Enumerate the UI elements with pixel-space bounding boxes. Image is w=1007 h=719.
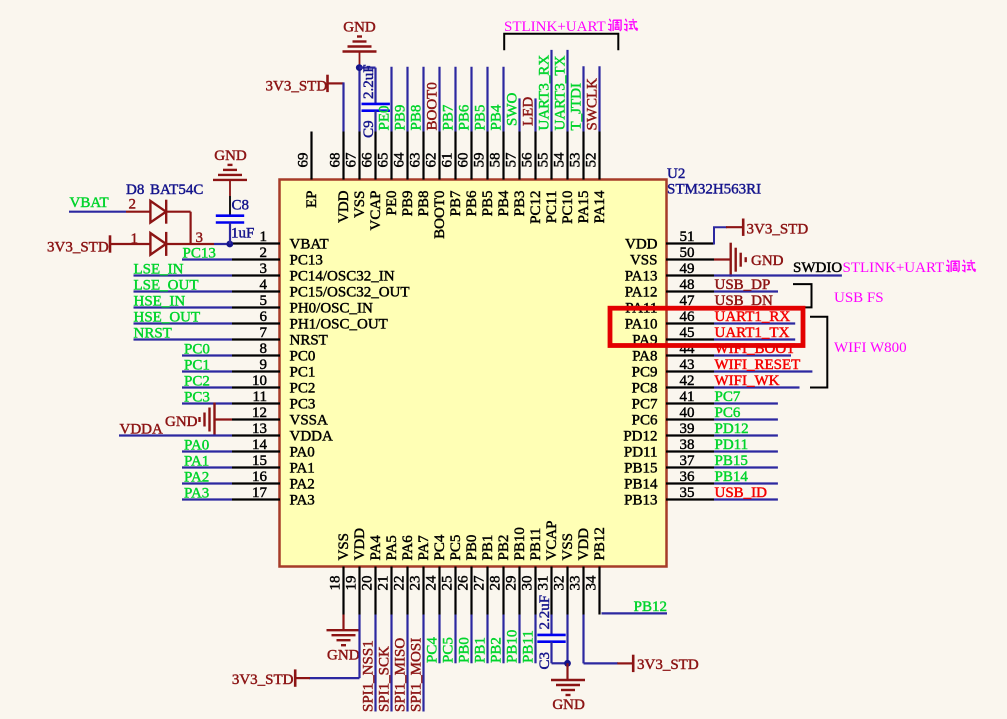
pin 66 stub (374, 132, 376, 180)
pin 30 stub (534, 567, 536, 615)
svg-text:2: 2 (129, 197, 137, 213)
svg-text:69: 69 (296, 153, 312, 168)
pin 55 stub (550, 132, 552, 180)
svg-text:PD11: PD11 (624, 445, 658, 461)
wire WIFI_BOOT (714, 354, 791, 356)
wire PB10 (518, 615, 520, 664)
svg-text:BOOT0: BOOT0 (425, 82, 441, 130)
wire C9 bottom / VCAP (374, 111, 376, 132)
wire C3 to junction (552, 662, 568, 664)
wire PB11 (534, 615, 536, 664)
svg-text:16: 16 (252, 469, 268, 485)
wire C9 top (374, 68, 376, 104)
svg-text:29: 29 (504, 576, 520, 591)
svg-text:45: 45 (680, 325, 695, 341)
wire SWDIO (714, 274, 842, 276)
svg-text:PC3: PC3 (290, 397, 316, 413)
svg-text:VDD: VDD (625, 237, 658, 253)
wire WIFI_WK (714, 386, 800, 388)
svg-text:PC13: PC13 (183, 246, 216, 262)
svg-text:PC4: PC4 (425, 637, 441, 663)
svg-text:62: 62 (424, 153, 440, 168)
svg-text:1uF: 1uF (231, 226, 254, 242)
svg-text:PA4: PA4 (368, 535, 384, 561)
wire LSE_IN (134, 274, 233, 276)
svg-text:VSS: VSS (630, 253, 658, 269)
svg-text:PB5: PB5 (473, 105, 489, 131)
svg-text:PB7: PB7 (448, 190, 464, 216)
wire PC0 (182, 354, 232, 356)
pin 21 stub (390, 567, 392, 615)
pin 26 stub (470, 567, 472, 615)
svg-text:UART3_TX: UART3_TX (553, 55, 569, 130)
pin 40 stub (666, 418, 714, 420)
wire PB9 (406, 67, 408, 132)
svg-text:LED: LED (521, 97, 537, 126)
svg-text:18: 18 (328, 576, 344, 591)
capacitor C8 (216, 216, 244, 223)
svg-text:PB5: PB5 (480, 191, 496, 217)
wire NRST (134, 338, 233, 340)
svg-text:SWCLK: SWCLK (585, 78, 601, 131)
pin 57 stub (518, 132, 520, 180)
svg-text:SWO: SWO (505, 93, 521, 127)
svg-text:PA13: PA13 (625, 269, 658, 285)
svg-text:PC4: PC4 (432, 534, 448, 560)
svg-text:T_JTDI: T_JTDI (569, 83, 585, 131)
wire LSE_OUT (134, 290, 233, 292)
wire HSE_IN (134, 306, 233, 308)
svg-text:PE0: PE0 (377, 105, 393, 130)
svg-text:PC6: PC6 (715, 405, 741, 421)
svg-text:PB2: PB2 (496, 535, 512, 561)
wire PC7 (714, 402, 778, 404)
svg-text:57: 57 (504, 152, 520, 168)
pin 20 stub (374, 567, 376, 615)
wire PC6 (714, 418, 778, 420)
wire VBAT to D8 anode (126, 211, 151, 213)
svg-text:50: 50 (680, 245, 695, 261)
power bar 3V3_STD bottom-right (632, 655, 635, 672)
wire PC4 (438, 615, 440, 664)
svg-text:VBAT: VBAT (70, 195, 109, 211)
svg-text:PC5: PC5 (441, 637, 457, 663)
wire PB8 (422, 67, 424, 132)
diode D8 upper (150, 200, 166, 224)
wire VDD pin33 vertical (582, 615, 584, 664)
pin 9 stub (232, 370, 280, 372)
svg-text:46: 46 (680, 309, 696, 325)
pin 62 stub (438, 132, 440, 180)
svg-text:UART1_TX: UART1_TX (715, 325, 790, 341)
pin 6 stub (232, 322, 280, 324)
svg-text:PA10: PA10 (625, 317, 658, 333)
svg-text:PB1: PB1 (480, 535, 496, 561)
svg-text:31: 31 (536, 576, 552, 591)
svg-text:66: 66 (360, 152, 376, 168)
svg-text:PB0: PB0 (457, 637, 473, 663)
pin 3 stub (232, 274, 280, 276)
power bar 3V3_STD bottom-left (294, 669, 297, 686)
svg-text:52: 52 (584, 153, 600, 168)
svg-text:HSE_IN: HSE_IN (134, 294, 186, 310)
svg-text:GND: GND (214, 148, 247, 164)
svg-text:UART1_RX: UART1_RX (715, 309, 791, 325)
svg-text:PB7: PB7 (441, 104, 457, 130)
wire SPI1_MISO (406, 615, 408, 712)
op-amp U2 MCU body STM32H563RI (280, 180, 667, 567)
wire PA0 (182, 450, 232, 452)
pin 27 stub (486, 567, 488, 615)
wire D8 common cathode (166, 243, 214, 245)
svg-text:PB2: PB2 (489, 637, 505, 663)
svg-text:25: 25 (440, 576, 456, 591)
svg-text:PB4: PB4 (496, 190, 512, 216)
wire D8 upper cathode (166, 211, 190, 213)
wire VSS pin50 to GND (714, 258, 731, 260)
svg-text:PB12: PB12 (592, 527, 608, 560)
svg-text:39: 39 (680, 421, 695, 437)
svg-text:27: 27 (472, 575, 488, 591)
svg-text:PH0/OSC_IN: PH0/OSC_IN (290, 301, 374, 317)
svg-text:PA6: PA6 (400, 535, 416, 561)
pin 67 stub (358, 132, 360, 180)
svg-text:PC3: PC3 (184, 390, 210, 406)
svg-text:40: 40 (680, 405, 695, 421)
svg-text:GND: GND (165, 414, 198, 430)
svg-text:STLINK+UART: STLINK+UART (504, 19, 606, 35)
svg-text:PC7: PC7 (632, 397, 658, 413)
svg-text:54: 54 (552, 152, 568, 168)
svg-text:PA8: PA8 (632, 349, 657, 365)
svg-text:48: 48 (680, 277, 695, 293)
svg-text:13: 13 (252, 421, 267, 437)
wire UART1_RX (714, 322, 795, 324)
svg-text:SPI1_MOSI: SPI1_MOSI (409, 638, 425, 712)
svg-text:NRST: NRST (134, 326, 172, 342)
wire C8 bottom (229, 223, 231, 245)
ground top C9 (343, 37, 377, 52)
pin 17 stub (232, 498, 280, 500)
svg-text:59: 59 (472, 153, 488, 168)
svg-text:22: 22 (392, 576, 408, 591)
pin 10 stub (232, 386, 280, 388)
svg-text:15: 15 (252, 453, 267, 469)
svg-text:PB0: PB0 (464, 535, 480, 561)
svg-text:PC9: PC9 (632, 365, 658, 381)
pin 44 stub (666, 354, 714, 356)
wire VDD pin68 vertical (342, 82, 344, 131)
svg-text:PB13: PB13 (624, 493, 657, 509)
diode D8 lower (150, 232, 166, 256)
pin 1 stub (232, 242, 280, 244)
svg-text:PB14: PB14 (715, 469, 749, 485)
svg-text:63: 63 (408, 153, 424, 168)
pin 59 stub (486, 132, 488, 180)
pin 12 stub (232, 418, 280, 420)
svg-text:3V3_STD: 3V3_STD (747, 222, 809, 238)
wire 3V3 bottom-right horiz (617, 662, 633, 664)
svg-text:PA12: PA12 (625, 285, 658, 301)
svg-text:PC15/OSC32_OUT: PC15/OSC32_OUT (290, 285, 410, 301)
wire SPI1_MOSI (422, 615, 424, 712)
ground pin32 (551, 680, 585, 695)
pin 24 stub (438, 567, 440, 615)
svg-text:PC11: PC11 (544, 191, 560, 224)
pin 41 stub (666, 402, 714, 404)
wire USB_DN (714, 306, 778, 308)
svg-text:51: 51 (680, 229, 695, 245)
svg-text:GND: GND (751, 253, 784, 269)
svg-text:PB1: PB1 (473, 637, 489, 663)
svg-text:PB3: PB3 (512, 191, 528, 217)
pin 46 stub (666, 322, 714, 324)
wire WIFI_RESET (714, 370, 812, 372)
pin 65 stub (390, 132, 392, 180)
svg-text:23: 23 (408, 576, 424, 591)
pin 18 stub (342, 567, 344, 615)
svg-text:VCAP: VCAP (544, 520, 560, 560)
svg-text:USB_DP: USB_DP (715, 277, 771, 293)
pin 29 stub (518, 567, 520, 615)
pin 52 stub (598, 132, 600, 180)
pin 19 stub (358, 567, 360, 615)
svg-text:2.2uF: 2.2uF (361, 64, 377, 99)
wire VSSA to GND (215, 418, 233, 420)
wire PD12 (714, 434, 778, 436)
svg-text:42: 42 (680, 373, 695, 389)
svg-text:PB11: PB11 (521, 630, 537, 663)
pin 61 stub (454, 132, 456, 180)
wire VDD pin51 to 3V3 (714, 227, 727, 244)
svg-text:BAT54C: BAT54C (150, 182, 203, 198)
wire PB14 (714, 482, 778, 484)
wire HSE_OUT (134, 322, 233, 324)
svg-text:67: 67 (344, 152, 360, 168)
svg-text:LSE_OUT: LSE_OUT (134, 278, 199, 294)
svg-text:PC10: PC10 (560, 191, 576, 224)
svg-text:3V3_STD: 3V3_STD (266, 79, 328, 95)
pin 60 stub (470, 132, 472, 180)
svg-text:PB10: PB10 (505, 630, 521, 663)
pin 32 stub (566, 567, 568, 615)
pin 45 stub (666, 338, 714, 340)
wire PC1 (182, 370, 232, 372)
pin C8 top (229, 196, 231, 216)
pin 23 stub (422, 567, 424, 615)
pin 31 stub (550, 567, 552, 615)
svg-text:VSSA: VSSA (290, 413, 329, 429)
wire PC2 (182, 386, 232, 388)
svg-text:PB6: PB6 (457, 104, 473, 130)
svg-text:3V3_STD: 3V3_STD (637, 657, 699, 673)
svg-text:U2: U2 (667, 166, 685, 182)
wire SPI1_NSS1 (374, 615, 376, 712)
svg-text:PE0: PE0 (384, 191, 400, 216)
bracket STLINK+UART group top (504, 34, 618, 51)
svg-text:STLINK+UART: STLINK+UART (843, 260, 945, 276)
svg-text:VBAT: VBAT (290, 237, 329, 253)
pin 48 stub (666, 290, 714, 292)
svg-text:43: 43 (680, 357, 695, 373)
svg-text:PA14: PA14 (592, 190, 608, 223)
svg-text:14: 14 (252, 437, 268, 453)
capacitor C9 (362, 104, 390, 111)
pin 68 stub (342, 132, 344, 180)
junction GND C9 (356, 64, 363, 71)
power bar 3V3_STD left (109, 235, 112, 252)
svg-text:PB10: PB10 (512, 527, 528, 560)
svg-text:SWDIO: SWDIO (793, 260, 842, 276)
label CJK right diao-shi (946, 260, 976, 272)
svg-text:PB6: PB6 (464, 190, 480, 216)
svg-text:PH1/OSC_OUT: PH1/OSC_OUT (290, 317, 388, 333)
pin 54 stub (566, 132, 568, 180)
svg-text:C9: C9 (361, 120, 377, 138)
pin 11 stub (232, 402, 280, 404)
wire VSS pin18 to GND (342, 615, 344, 631)
wire USB_ID (714, 498, 778, 500)
capacitor C3 (537, 635, 565, 642)
highlight box UART1 (610, 308, 803, 345)
svg-text:35: 35 (680, 485, 695, 501)
svg-text:VSS: VSS (336, 533, 352, 561)
svg-text:GND: GND (343, 20, 376, 36)
svg-text:C8: C8 (232, 198, 250, 214)
svg-text:32: 32 (552, 576, 568, 591)
wire PB5 (486, 67, 488, 132)
wire cathode join vertical (190, 212, 192, 244)
svg-text:PD12: PD12 (715, 421, 749, 437)
svg-text:WIFI_RESET: WIFI_RESET (715, 357, 801, 373)
wire GND stem C8 (229, 180, 231, 196)
svg-text:PB9: PB9 (400, 191, 416, 217)
pin 33 stub (582, 567, 584, 615)
svg-text:6: 6 (260, 309, 268, 325)
ground pin50 (731, 243, 746, 277)
pin 49 stub (666, 274, 714, 276)
wire USB_DP (714, 290, 778, 292)
svg-text:34: 34 (584, 575, 600, 591)
wire T_JTDI (582, 66, 584, 131)
svg-text:7: 7 (260, 325, 268, 341)
svg-text:PB15: PB15 (624, 461, 657, 477)
wire PC3 (182, 402, 232, 404)
svg-text:3V3_STD: 3V3_STD (232, 672, 294, 688)
svg-text:PA0: PA0 (290, 445, 315, 461)
svg-text:PC8: PC8 (632, 381, 658, 397)
svg-text:58: 58 (488, 153, 504, 168)
svg-text:PC0: PC0 (184, 342, 210, 358)
pin 56 stub (534, 132, 536, 180)
svg-text:30: 30 (520, 576, 536, 591)
wire VDDA (119, 434, 232, 436)
wire VDD pin19 horiz (309, 677, 360, 679)
svg-text:PA3: PA3 (290, 493, 315, 509)
wire PB1 (486, 615, 488, 664)
pin 43 stub (666, 370, 714, 372)
pin 8 stub (232, 354, 280, 356)
svg-text:PA1: PA1 (184, 454, 209, 470)
wire PA1 (182, 466, 232, 468)
svg-text:68: 68 (328, 153, 344, 168)
svg-text:VDDA: VDDA (120, 422, 163, 438)
ground pin18 (327, 630, 361, 645)
svg-text:PB4: PB4 (489, 104, 505, 130)
svg-text:11: 11 (253, 389, 267, 405)
svg-text:PA0: PA0 (184, 438, 209, 454)
svg-text:8: 8 (260, 341, 268, 357)
pin 37 stub (666, 466, 714, 468)
wire LED (534, 98, 536, 131)
svg-text:GND: GND (327, 648, 360, 664)
svg-text:USB FS: USB FS (834, 290, 884, 306)
svg-text:PC2: PC2 (184, 374, 210, 390)
svg-text:PB8: PB8 (416, 191, 432, 217)
wire junction to C9 (359, 66, 375, 68)
svg-text:28: 28 (488, 576, 504, 591)
svg-text:VCAP: VCAP (368, 191, 384, 231)
wire 3V3 top horiz (328, 82, 344, 84)
pin 42 stub (666, 386, 714, 388)
svg-text:VDD: VDD (336, 190, 352, 223)
wire GND stem pin32 (566, 663, 568, 680)
svg-text:61: 61 (440, 153, 456, 168)
svg-text:VDDA: VDDA (290, 429, 333, 445)
svg-text:USB_ID: USB_ID (715, 485, 768, 501)
svg-text:PC12: PC12 (528, 191, 544, 224)
svg-text:PB8: PB8 (409, 105, 425, 131)
power bar 3V3_STD right (742, 219, 745, 236)
wire VSS pin32 vertical (566, 615, 568, 664)
svg-text:STM32H563RI: STM32H563RI (667, 182, 761, 198)
power bar 3V3_STD top (326, 75, 329, 92)
svg-text:PC13: PC13 (290, 253, 323, 269)
pin 63 stub (422, 132, 424, 180)
svg-text:5: 5 (260, 293, 268, 309)
svg-text:VSS: VSS (352, 191, 368, 219)
pin 69 stub (310, 132, 312, 180)
svg-text:SPI1_NSS1: SPI1_NSS1 (361, 640, 377, 712)
svg-text:17: 17 (252, 485, 268, 501)
ground VSSA (200, 403, 215, 437)
junction C3 GND (564, 660, 571, 667)
pin 47 stub (666, 306, 714, 308)
wire PB4 (502, 67, 504, 132)
pin 13 stub (232, 434, 280, 436)
svg-text:21: 21 (376, 576, 392, 591)
pin 53 stub (582, 132, 584, 180)
wire PB2 (502, 615, 504, 664)
svg-text:9: 9 (260, 357, 268, 373)
wire VSS pin67 vertical (358, 65, 360, 132)
pin 15 stub (232, 466, 280, 468)
pin 39 stub (666, 434, 714, 436)
ground above C8 (213, 165, 247, 180)
svg-text:HSE_OUT: HSE_OUT (134, 310, 201, 326)
wire PB0 (470, 615, 472, 664)
wire 3V3_STD to D8 lower anode (110, 243, 151, 245)
svg-text:PA3: PA3 (184, 486, 209, 502)
svg-text:2: 2 (260, 245, 268, 261)
svg-text:53: 53 (568, 153, 584, 168)
svg-text:3: 3 (196, 230, 204, 246)
svg-text:37: 37 (680, 453, 696, 469)
svg-text:64: 64 (392, 152, 408, 168)
svg-text:WIFI W800: WIFI W800 (834, 340, 907, 356)
pin 51 stub (666, 242, 714, 244)
wire PE0 (390, 67, 392, 132)
